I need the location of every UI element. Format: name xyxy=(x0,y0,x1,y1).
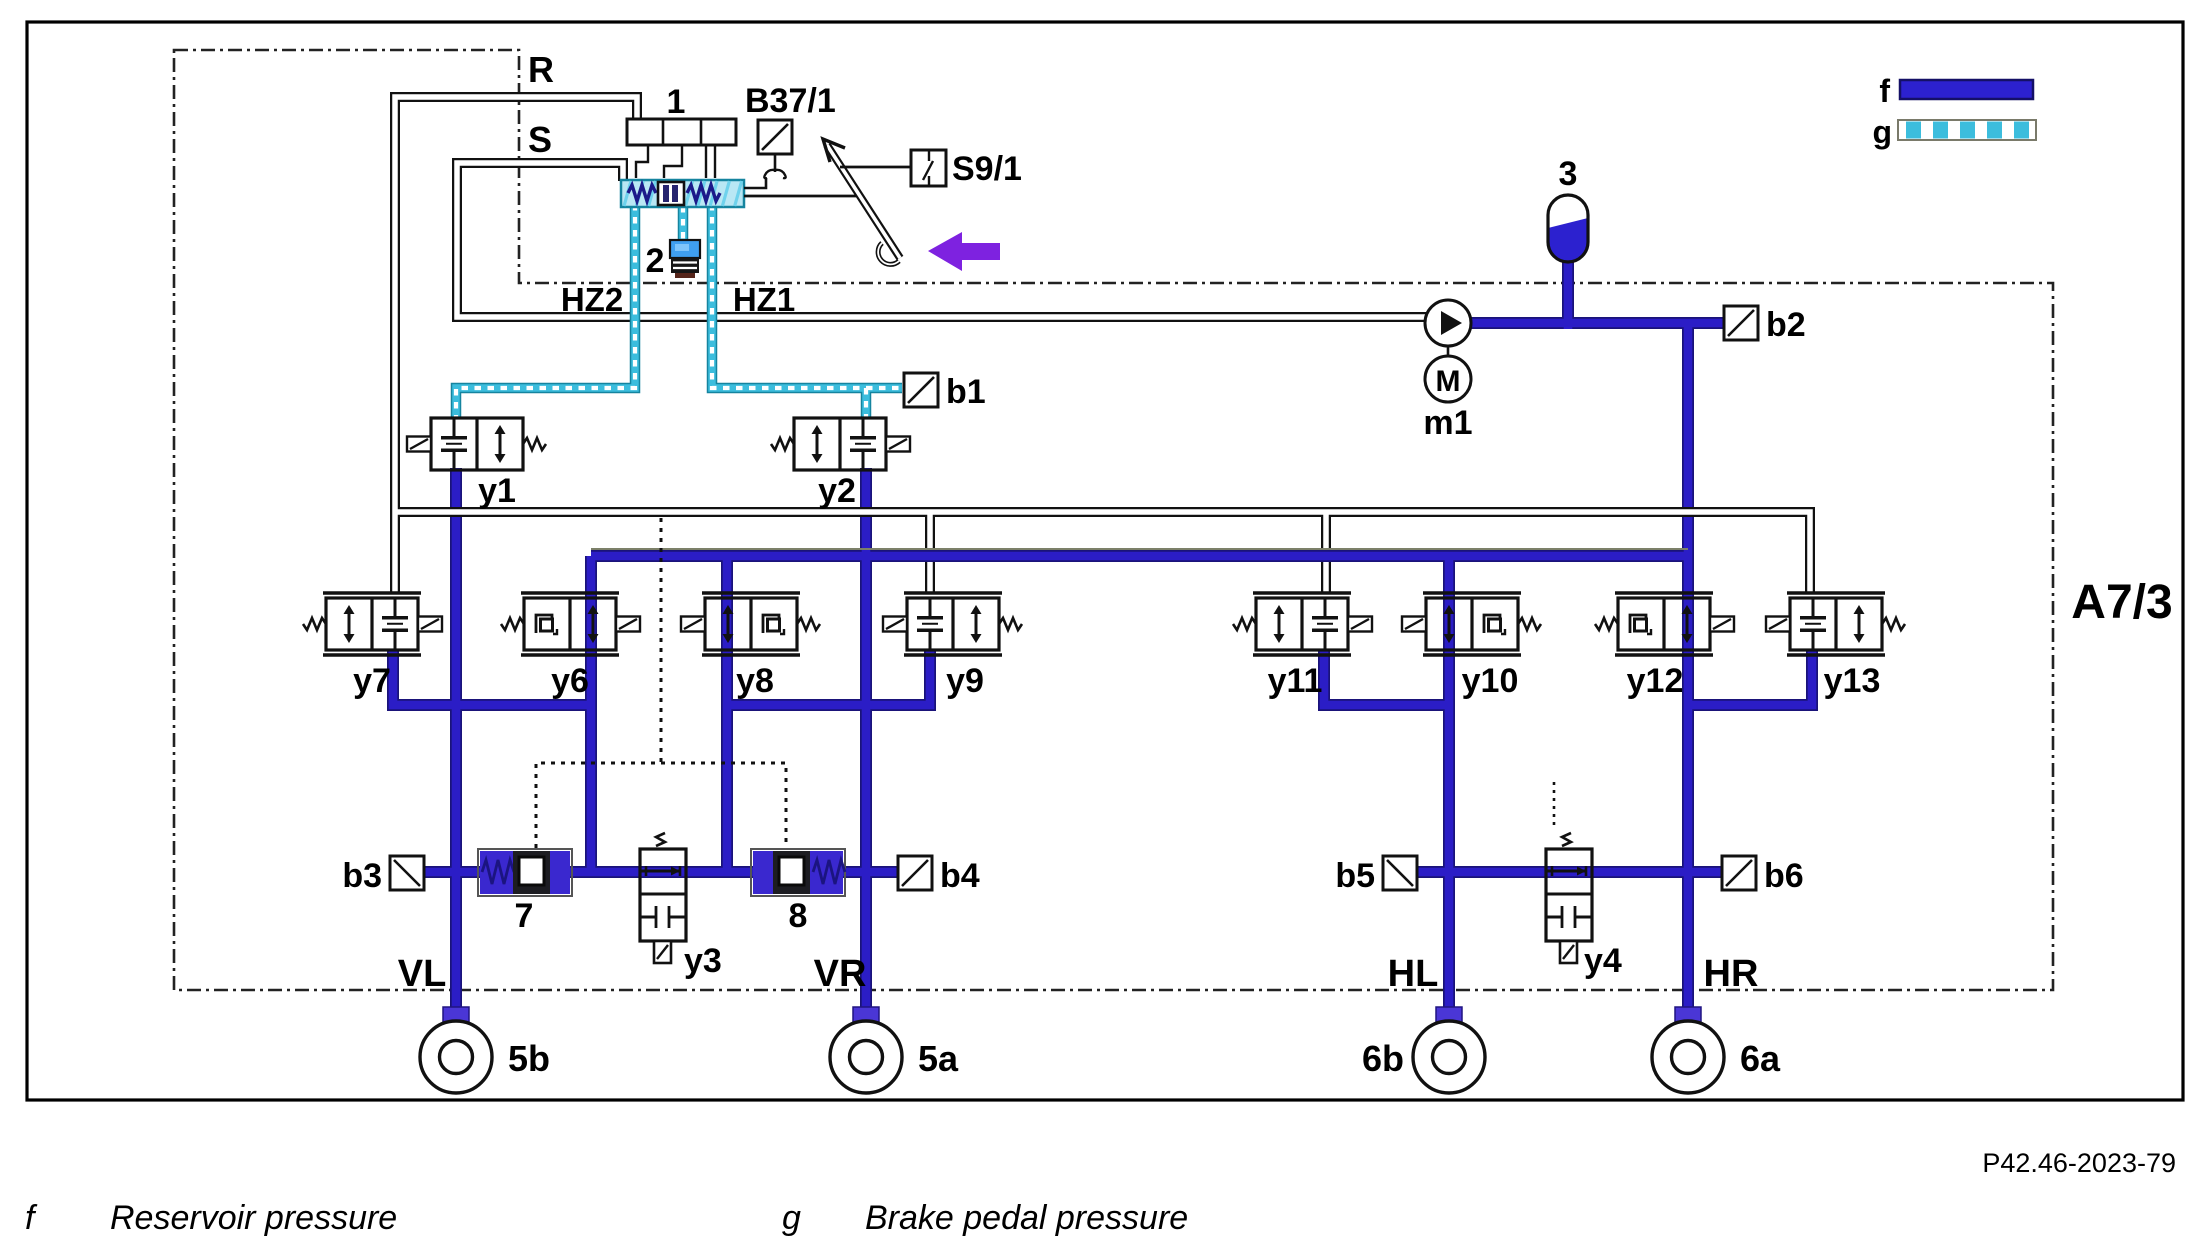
svg-text:7: 7 xyxy=(515,897,534,935)
electric motor m1 xyxy=(1425,346,1471,402)
pressure sensor b1 xyxy=(904,373,938,407)
solenoid valve y6 xyxy=(501,593,640,655)
svg-text:P42.46-2023-79: P42.46-2023-79 xyxy=(1982,1148,2176,1178)
wire rear brake line b5 - y4 - b6 (reservoir-pressure line) xyxy=(1417,866,1722,878)
stop lamp switch S9/1 xyxy=(911,150,946,186)
solenoid valve y12 xyxy=(1595,593,1734,655)
svg-text:y10: y10 xyxy=(1462,662,1519,700)
link pedal to switch S9/1 xyxy=(840,166,911,169)
svg-text:Brake pedal pressure: Brake pedal pressure xyxy=(865,1199,1188,1237)
solenoid valve y8 xyxy=(681,593,820,655)
svg-text:y7: y7 xyxy=(353,662,391,700)
svg-text:HZ1: HZ1 xyxy=(733,281,795,318)
svg-text:b4: b4 xyxy=(940,857,980,895)
reservoir 2 with filter xyxy=(670,240,700,278)
svg-text:g: g xyxy=(1872,114,1892,150)
wire y9 outlet branch (reservoir-pressure line) xyxy=(727,650,930,705)
wheel connector 6a xyxy=(1675,1007,1701,1023)
pressure limiting valve 8 xyxy=(751,849,845,896)
wire front brake line b3 - 7 - y3 - 8 - b4 (reservoir-pressure line) xyxy=(424,866,899,878)
wheel connector 5b xyxy=(443,1007,469,1023)
svg-text:6a: 6a xyxy=(1740,1038,1781,1079)
svg-text:f: f xyxy=(1879,73,1890,109)
svg-text:b5: b5 xyxy=(1335,857,1375,895)
wire HL trunk through valve y10 to wheel 6b (reservoir-pressure line) xyxy=(1443,556,1455,1016)
wheel circle 5a xyxy=(830,1021,902,1093)
svg-text:S: S xyxy=(528,119,552,160)
svg-text:M: M xyxy=(1436,365,1461,398)
wire return branch to y11 (unpressurized pipe) xyxy=(1321,512,1331,594)
svg-text:R: R xyxy=(528,49,554,90)
svg-text:A7/3: A7/3 xyxy=(2071,576,2172,629)
wire master cylinder to reservoir 2 (brake-pedal-pressure line) xyxy=(678,206,689,240)
pressure sensor b6 xyxy=(1722,856,1756,890)
changeover valve y4 xyxy=(1546,833,1592,963)
white dashes of HZ1 master cylinder circuit 1 to sensor b1 xyxy=(712,204,902,388)
svg-text:HL: HL xyxy=(1388,953,1439,995)
svg-text:y13: y13 xyxy=(1824,662,1881,700)
svg-text:B37/1: B37/1 xyxy=(745,82,836,120)
changeover valve y3 xyxy=(640,833,686,963)
brake pedal xyxy=(823,139,900,264)
solenoid valve y10 xyxy=(1402,593,1541,655)
svg-text:b6: b6 xyxy=(1764,857,1804,895)
svg-text:5a: 5a xyxy=(918,1038,959,1079)
cyan pipe cores overlay xyxy=(456,204,902,418)
wire HZ1 tap to valve y2 (brake-pedal-pressure line) xyxy=(861,388,872,418)
solenoid valve y7 xyxy=(303,593,442,655)
svg-text:y3: y3 xyxy=(684,942,722,980)
tandem master cylinder HZ xyxy=(621,180,744,207)
svg-text:y2: y2 xyxy=(818,472,856,510)
svg-text:y11: y11 xyxy=(1268,662,1323,700)
white dashes of HZ1 tap to valve y2 xyxy=(864,388,868,418)
pressure sensor b2 xyxy=(1724,306,1758,340)
svg-text:g: g xyxy=(782,1199,801,1237)
pressure sensor B37/1 xyxy=(758,120,792,154)
pedal actuation arrow xyxy=(928,232,1000,271)
wire HZ1 master cylinder circuit 1 to sensor b1 (brake-pedal-pressure line) xyxy=(712,204,902,388)
svg-text:y4: y4 xyxy=(1584,942,1622,980)
solenoid valve y11 xyxy=(1233,593,1372,655)
wire accumulator 3 stub (reservoir-pressure line) xyxy=(1562,259,1574,329)
solenoid valve y9 xyxy=(883,593,1022,655)
legend g dashed bar xyxy=(1898,120,2036,140)
wire VR trunk from y2 to wheel 5a (reservoir-pressure line) xyxy=(860,468,872,1016)
svg-text:y12: y12 xyxy=(1627,662,1684,700)
white dashes of HZ2 master cylinder circuit 2 to valve y1 xyxy=(456,204,635,418)
svg-text:b3: b3 xyxy=(342,857,382,895)
svg-text:y1: y1 xyxy=(478,472,516,510)
svg-text:y8: y8 xyxy=(736,662,774,700)
wheel connector 5a xyxy=(853,1007,879,1023)
pressure sensor b4 xyxy=(898,856,932,890)
solenoid valve y2 xyxy=(771,418,910,470)
svg-text:8: 8 xyxy=(789,897,808,935)
wire HR trunk from b2 line down to wheel 6a (reservoir-pressure line) xyxy=(1682,323,1694,1016)
wire y13 outlet branch (reservoir-pressure line) xyxy=(1688,650,1812,705)
white pipe cores overlay xyxy=(395,97,1810,594)
solenoid valve y13 xyxy=(1766,593,1905,655)
svg-text:HR: HR xyxy=(1704,953,1759,995)
wire HZ2 master cylinder circuit 2 to valve y1 (brake-pedal-pressure line) xyxy=(456,204,635,418)
svg-text:S9/1: S9/1 xyxy=(952,150,1022,188)
svg-text:y9: y9 xyxy=(946,662,984,700)
wire pressure bus (overlay repair) xyxy=(900,550,1360,562)
svg-text:b1: b1 xyxy=(946,373,986,411)
wire return manifold bus to y13 (unpressurized pipe) xyxy=(395,512,1810,594)
pilot control dashed line to changeover valve xyxy=(660,518,663,762)
pressure bus printed top edge xyxy=(591,548,1688,550)
svg-text:VL: VL xyxy=(398,953,447,995)
wire return branch to y9 (unpressurized pipe) xyxy=(925,512,935,594)
wire branch through valve y6 to front axle line (reservoir-pressure line) xyxy=(585,556,597,872)
svg-text:2: 2 xyxy=(646,242,665,280)
wire pump outlet to sensor b2 (reservoir-pressure line) xyxy=(1471,317,1724,329)
brake fluid reservoir 1 xyxy=(627,119,736,145)
svg-text:6b: 6b xyxy=(1362,1038,1404,1079)
svg-text:b2: b2 xyxy=(1766,306,1806,344)
svg-text:Reservoir pressure: Reservoir pressure xyxy=(110,1199,397,1237)
wire pressure bus (reservoir-pressure line) xyxy=(591,550,1688,562)
wheel circle 5b xyxy=(420,1021,492,1093)
svg-text:1: 1 xyxy=(667,83,686,121)
blue pipe cores overlay xyxy=(393,259,1812,1016)
svg-text:y6: y6 xyxy=(551,662,589,700)
pressure accumulator 3 xyxy=(1548,195,1588,262)
pushrod from master cylinder to pedal xyxy=(744,195,858,198)
pressure sensor b5 xyxy=(1383,856,1417,890)
svg-text:5b: 5b xyxy=(508,1038,550,1079)
svg-text:VR: VR xyxy=(814,953,867,995)
hydraulic pump xyxy=(1425,300,1471,346)
legend f solid bar xyxy=(1900,80,2033,99)
solenoid valve y1 xyxy=(407,418,546,470)
wire y7 outlet branch (reservoir-pressure line) xyxy=(393,650,591,705)
white dashes of master cylinder to reservoir 2 xyxy=(681,206,685,240)
wire S suction line from reservoir to pump m1 (unpressurized pipe) xyxy=(457,163,1427,317)
wire R return line from reservoir to valve block (unpressurized pipe) xyxy=(395,97,637,594)
reservoir outlet stubs xyxy=(636,145,715,178)
wire branch through valve y8 (reservoir-pressure line) xyxy=(721,556,733,872)
A7/3 hydraulic unit dash-dot boundary xyxy=(174,50,2053,990)
pressure sensor b3 xyxy=(390,856,424,890)
wheel circle 6b xyxy=(1413,1021,1485,1093)
pilot control dashed lines to limiters 7 and 8 xyxy=(536,763,786,848)
pressure limiting valve 7 xyxy=(478,849,572,896)
svg-text:m1: m1 xyxy=(1423,404,1472,442)
svg-text:HZ2: HZ2 xyxy=(561,281,623,318)
wire y11 outlet branch (reservoir-pressure line) xyxy=(1324,650,1449,705)
B37/1 linkage symbol xyxy=(744,154,786,188)
pilot stub above y4 xyxy=(1553,782,1556,830)
wheel circle 6a xyxy=(1652,1021,1724,1093)
wire VL trunk from y1 to wheel 5b (reservoir-pressure line) xyxy=(450,468,462,1016)
svg-text:3: 3 xyxy=(1559,155,1578,193)
wheel connector 6b xyxy=(1436,1007,1462,1023)
